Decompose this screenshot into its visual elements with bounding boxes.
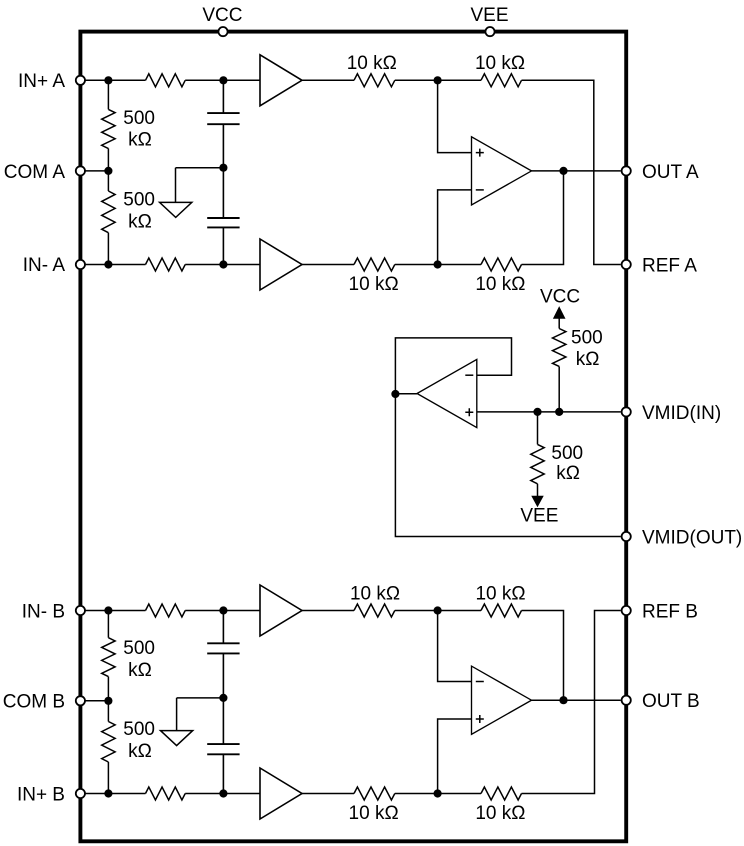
svg-text:10 kΩ: 10 kΩ — [347, 53, 397, 74]
ground symbol A — [160, 202, 192, 217]
resistor R 10k A-top-1 — [354, 74, 395, 87]
svg-text:VCC: VCC — [540, 287, 580, 308]
capacitor C B-top — [207, 643, 239, 653]
junction B5 (cap midpoint/ground) — [219, 694, 227, 702]
wire op-amp B output to OUT B — [532, 699, 621, 701]
wire VMID feedback loop — [395, 338, 511, 394]
wire B bottom to REF B — [522, 611, 621, 794]
pin REF B — [622, 606, 631, 615]
svg-text:10 kΩ: 10 kΩ — [475, 274, 525, 295]
op-amp VMID minus sign — [465, 374, 473, 376]
junction B8 — [434, 789, 442, 797]
wire capacitor chain A — [222, 80, 224, 264]
junction B1 — [104, 606, 112, 614]
svg-text:500: 500 — [571, 328, 603, 349]
junction A8 — [434, 260, 442, 268]
pin REF A — [622, 260, 631, 269]
junction A6 — [104, 260, 112, 268]
svg-text:kΩ: kΩ — [556, 463, 580, 484]
op-amp A — [472, 137, 532, 205]
resistor 500k VMID lower — [537, 412, 539, 445]
ground symbol B — [161, 731, 193, 746]
wire VMID(OUT) net — [395, 394, 620, 537]
svg-text:VMID(IN): VMID(IN) — [642, 403, 721, 424]
op-amp B minus sign — [476, 681, 484, 683]
wire IN+ B rail — [85, 793, 146, 795]
svg-text:500: 500 — [551, 443, 583, 464]
wire op-amp B noninverting input — [438, 719, 472, 794]
wire ground stub A — [176, 168, 224, 203]
pin IN- B — [76, 606, 85, 615]
wire buffer A1 output — [302, 79, 354, 81]
junction A5 (cap midpoint/ground) — [219, 164, 227, 172]
IC package outline — [80, 32, 626, 842]
svg-text:kΩ: kΩ — [128, 211, 152, 232]
svg-text:VCC: VCC — [202, 5, 242, 26]
svg-text:OUT B: OUT B — [642, 691, 700, 712]
junction B3 — [434, 606, 442, 614]
resistor 500k A1 vertical — [107, 80, 109, 109]
svg-text:10 kΩ: 10 kΩ — [475, 53, 525, 74]
svg-text:10 kΩ: 10 kΩ — [475, 583, 525, 604]
junction B6 — [104, 789, 112, 797]
resistor R 10k A-top-2 — [481, 74, 522, 87]
pin IN- A — [76, 260, 85, 269]
junction VMID node1 — [391, 390, 399, 398]
pin VMID(OUT) — [622, 532, 631, 541]
capacitor C A-top — [207, 113, 239, 124]
pin OUT A — [622, 166, 631, 175]
svg-text:REF B: REF B — [642, 601, 698, 622]
resistor input IN- A — [146, 258, 186, 271]
svg-text:10 kΩ: 10 kΩ — [350, 583, 400, 604]
arrow to VCC — [554, 307, 565, 318]
svg-text:500: 500 — [123, 719, 155, 740]
svg-text:VMID(OUT): VMID(OUT) — [642, 527, 742, 548]
power pin VEE — [485, 27, 494, 36]
resistor 500k VMID upper — [553, 329, 566, 367]
wire buffer B2 output — [302, 793, 354, 795]
power pin VCC — [218, 27, 227, 36]
junction A7 — [219, 260, 227, 268]
wire op-amp A inverting input — [438, 190, 472, 265]
svg-text:10 kΩ: 10 kΩ — [349, 803, 399, 824]
wire op-amp B inverting input — [438, 611, 472, 682]
resistor 500k B2 vertical — [107, 701, 109, 722]
svg-text:500: 500 — [123, 108, 155, 129]
pin COM B — [76, 696, 85, 705]
junction VMID node3 — [555, 408, 563, 416]
svg-text:COM A: COM A — [4, 162, 66, 183]
svg-text:500: 500 — [123, 638, 155, 659]
op-amp VMID plus sign — [465, 408, 473, 416]
op-amp A minus sign — [476, 189, 484, 191]
pin COM A — [76, 166, 85, 175]
wire feedback to op-amp B output — [522, 611, 564, 701]
svg-text:kΩ: kΩ — [576, 349, 600, 370]
svg-text:IN- A: IN- A — [23, 255, 66, 276]
resistor input IN+ A — [146, 74, 186, 87]
resistor R 10k B-top-1 — [354, 604, 395, 617]
svg-text:10 kΩ: 10 kΩ — [349, 274, 399, 295]
resistor input IN+ B — [146, 787, 186, 800]
buffer amp A1 — [260, 55, 302, 106]
svg-text:COM B: COM B — [3, 692, 65, 713]
svg-text:IN- B: IN- B — [22, 601, 65, 622]
wire A top to REF A — [522, 80, 621, 264]
op-amp B — [472, 666, 532, 734]
wire feedback to op-amp A output — [522, 171, 564, 265]
wire COM B — [85, 700, 108, 702]
junction B4 — [104, 697, 112, 705]
junction A9 (op-amp A output) — [559, 167, 567, 175]
resistor R 10k A-bottom-2 (feedback) — [481, 258, 522, 271]
resistor R 10k B-bottom-2 — [438, 793, 481, 795]
wire op-amp A noninverting input — [438, 80, 472, 152]
wire A top node — [395, 79, 481, 81]
buffer amp B1 — [260, 585, 302, 636]
resistor input IN- B — [146, 604, 186, 617]
svg-text:kΩ: kΩ — [128, 660, 152, 681]
wire IN+ A rail — [85, 79, 146, 81]
wire buffer A2 output — [302, 264, 354, 266]
wire VMID op-amp output — [395, 393, 417, 395]
svg-text:VEE: VEE — [470, 5, 508, 26]
resistor R 10k B-bottom-1 — [354, 787, 395, 800]
pin OUT B — [622, 696, 631, 705]
wire capacitor chain B — [222, 611, 224, 794]
svg-text:kΩ: kΩ — [128, 741, 152, 762]
buffer amp A2 — [260, 239, 302, 290]
op-amp A plus sign — [476, 149, 484, 157]
wire op-amp A output to OUT A — [532, 170, 621, 172]
capacitor C B-bottom — [207, 744, 239, 754]
junction B7 — [219, 789, 227, 797]
junction B2 — [219, 606, 227, 614]
svg-text:500: 500 — [123, 190, 155, 211]
wire IN- A rail — [85, 264, 146, 266]
svg-text:VEE: VEE — [520, 506, 558, 527]
resistor R 10k A-bottom-1 — [354, 258, 395, 271]
buffer amp B2 — [260, 768, 302, 819]
resistor 500k B1 vertical — [107, 611, 109, 638]
wire IN- B rail — [85, 610, 146, 612]
wire COM A — [85, 170, 108, 172]
svg-text:OUT A: OUT A — [642, 162, 699, 183]
svg-text:REF A: REF A — [642, 255, 697, 276]
pin IN+ A — [76, 76, 85, 85]
pin VMID(IN) — [622, 407, 631, 416]
op-amp B plus sign — [476, 715, 484, 723]
junction B9 (op-amp B output) — [559, 696, 567, 704]
junction A2 — [219, 76, 227, 84]
junction A3 — [434, 76, 442, 84]
wire VMID(IN) net — [477, 411, 621, 413]
svg-text:10 kΩ: 10 kΩ — [475, 803, 525, 824]
pin IN+ B — [76, 789, 85, 798]
svg-text:kΩ: kΩ — [128, 130, 152, 151]
junction A1 — [104, 76, 112, 84]
wire ground stub B — [177, 698, 224, 731]
op-amp VMID buffer — [417, 359, 477, 427]
resistor R 10k B-top-2 (feedback) — [438, 610, 481, 612]
wire buffer B1 output — [302, 610, 354, 612]
junction VMID node2 — [533, 408, 541, 416]
resistor 500k A2 vertical — [107, 171, 109, 191]
svg-text:IN+ B: IN+ B — [17, 784, 65, 805]
junction A4 — [104, 167, 112, 175]
svg-text:IN+ A: IN+ A — [18, 71, 65, 92]
capacitor C A-bottom — [207, 218, 239, 227]
arrow to VEE — [532, 496, 543, 506]
